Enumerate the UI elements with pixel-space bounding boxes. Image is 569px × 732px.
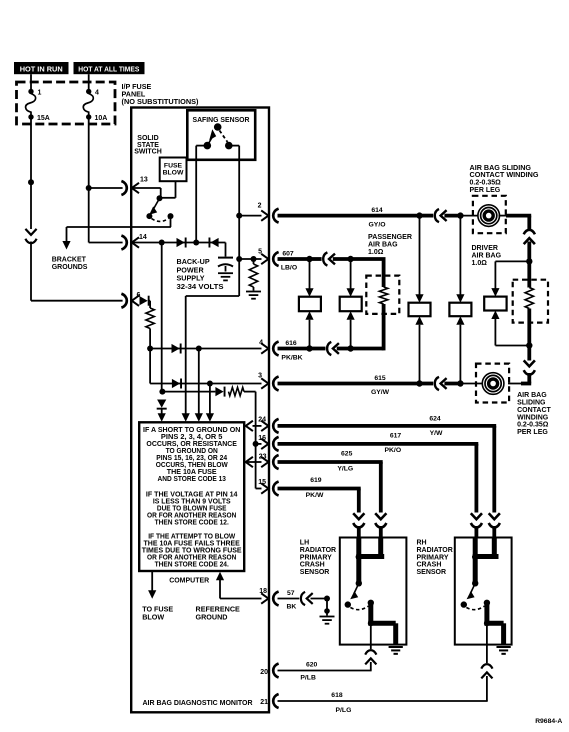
svg-text:THE 10A FUSE: THE 10A FUSE [167, 469, 217, 476]
wire squib P2 bottom [350, 320, 352, 349]
svg-text:32-34 VOLTS: 32-34 VOLTS [177, 282, 224, 291]
wire safing sensor right leg [238, 146, 240, 259]
junction dot 614/squib R2 [457, 212, 463, 218]
wire squib R2 bottom [459, 325, 461, 384]
svg-text:WINDING: WINDING [517, 414, 549, 421]
wire squib R1 top [419, 216, 421, 295]
pin 21 [260, 694, 278, 708]
label REFERENCE GROUND [196, 605, 241, 622]
arrow into squib R2 [456, 294, 464, 303]
label R9684-A [535, 718, 562, 725]
svg-text:14: 14 [139, 234, 147, 241]
junction dot 616/squib P2 [347, 345, 353, 351]
wire 614 GY/O [278, 207, 420, 228]
label COMPUTER [169, 575, 210, 584]
svg-text:16: 16 [258, 435, 266, 442]
svg-text:13: 13 [140, 177, 148, 184]
I/P fuse panel (dashed box) [17, 82, 116, 124]
svg-text:LB/O: LB/O [281, 265, 297, 272]
wire 620 P/LB [278, 662, 372, 682]
svg-text:DUE TO BLOWN FUSE: DUE TO BLOWN FUSE [157, 506, 227, 513]
inline connector on 615 [420, 377, 447, 390]
svg-text:TIMES DUE TO WRONG FUSE: TIMES DUE TO WRONG FUSE [142, 547, 242, 554]
wire to bracket grounds [67, 227, 171, 241]
resistor monitor bias [249, 259, 257, 291]
air bag sliding contact winding (top) box [473, 196, 506, 233]
svg-text:4: 4 [95, 90, 99, 97]
label TO FUSE BLOW [142, 605, 173, 622]
wire 607 to passenger resistor [333, 257, 351, 261]
svg-text:625: 625 [341, 450, 353, 457]
svg-text:21: 21 [260, 699, 268, 706]
inline connector driver return [524, 360, 535, 374]
svg-text:BLOW: BLOW [142, 613, 164, 622]
arrow into computer 4 [206, 413, 214, 422]
svg-text:607: 607 [282, 251, 294, 258]
svg-text:CRASH: CRASH [300, 562, 325, 569]
svg-text:GROUNDS: GROUNDS [52, 264, 88, 271]
wire 625 into LH sensor [379, 526, 383, 539]
svg-text:BK: BK [287, 604, 297, 611]
svg-text:(NO SUBSTITUTIONS): (NO SUBSTITUTIONS) [122, 97, 200, 106]
label DRIVER AIR BAG 1.0 ohm [472, 245, 502, 267]
wire 15A feed to pin 6 [31, 242, 123, 301]
wire pin2 row [239, 215, 261, 217]
arrow pin23 into computer [246, 457, 253, 467]
svg-text:10A: 10A [95, 115, 108, 122]
wire 624 Y/W [278, 416, 497, 513]
driver air bag squib [484, 297, 506, 311]
resistor driver air bag [525, 288, 533, 309]
wire feeder row [162, 391, 216, 393]
svg-text:FUSE: FUSE [164, 162, 183, 169]
junction dot driver bottom [526, 342, 532, 348]
squib R1 [409, 303, 431, 317]
svg-text:1.0Ω: 1.0Ω [368, 249, 384, 256]
junction dot feeder/monitor rail [159, 389, 165, 395]
arrow into driver squib [491, 288, 499, 297]
wire 616 mid [310, 347, 326, 351]
arrow pin24 into computer [246, 421, 253, 431]
svg-text:COMPUTER: COMPUTER [169, 575, 210, 584]
diode CR4 [172, 344, 182, 354]
svg-text:PER LEG: PER LEG [517, 429, 548, 436]
wire squib R2 top [459, 216, 461, 295]
arrow into computer 3 [195, 413, 203, 422]
wire RH sensor to 618 [486, 623, 488, 663]
wire 615 GY/W [278, 375, 420, 396]
wire pin16 row [256, 443, 262, 445]
svg-text:GY/W: GY/W [371, 389, 390, 396]
wire driver squib top [495, 261, 529, 288]
svg-text:BRACKET: BRACKET [52, 257, 87, 264]
svg-text:DRIVER: DRIVER [472, 245, 498, 252]
pin 6 [121, 292, 140, 308]
arrow into squib P1 [305, 288, 313, 297]
inline connector on 57 [301, 592, 313, 605]
wire driver return elbow [508, 373, 531, 384]
inline connector driver feed [524, 230, 535, 244]
diode CR7 [157, 400, 167, 410]
inline connector on 614 [420, 209, 447, 222]
junction dot 614/squib R1 [416, 212, 422, 218]
driver air bag resistor box [513, 280, 548, 323]
label LH RADIATOR PRIMARY CRASH SENSOR [300, 540, 336, 577]
resistor pin6 [146, 308, 154, 329]
arrow reference ground into computer [216, 572, 224, 581]
wire driver resistor top [527, 261, 531, 287]
pin 5 [258, 249, 279, 267]
resistor sense [229, 387, 245, 395]
wire monitor rail to computer [161, 408, 163, 414]
svg-text:PRIMARY: PRIMARY [300, 554, 332, 561]
svg-text:PK/BK: PK/BK [281, 355, 302, 362]
svg-text:THEN STORE CODE 24.: THEN STORE CODE 24. [155, 561, 229, 568]
svg-text:PRIMARY: PRIMARY [417, 554, 449, 561]
pin 2 [258, 202, 279, 222]
wire resistor down [149, 329, 151, 349]
inline connector 617 [471, 513, 482, 527]
passenger squib P1 [299, 297, 321, 312]
air bag diagnostic monitor box [131, 108, 269, 713]
junction dot 10A feed / pin 13 [86, 185, 92, 191]
svg-text:IF THE ATTEMPT TO BLOW: IF THE ATTEMPT TO BLOW [148, 533, 235, 540]
wire driver resistor bottom [527, 309, 531, 346]
label BACK-UP POWER SUPPLY 32-34 VOLTS [177, 257, 224, 291]
wire 624 into RH sensor [492, 526, 496, 539]
svg-text:2: 2 [258, 202, 262, 209]
svg-text:AIR BAG DIAGNOSTIC MONITOR: AIR BAG DIAGNOSTIC MONITOR [143, 698, 254, 707]
svg-text:15A: 15A [37, 115, 50, 122]
wire 10A feed to pin 14 [89, 242, 123, 244]
junction dot safing leg / pin5 [236, 256, 242, 262]
svg-text:PASSENGER: PASSENGER [368, 234, 412, 241]
LH sensor bus [356, 538, 385, 587]
svg-text:1: 1 [38, 90, 42, 97]
junction dot pin14/safing left leg [193, 240, 199, 246]
wire to backup capacitor [225, 243, 227, 257]
svg-text:OR FOR ANOTHER REASON: OR FOR ANOTHER REASON [147, 554, 236, 561]
svg-text:IF THE VOLTAGE AT PIN 14: IF THE VOLTAGE AT PIN 14 [146, 492, 238, 499]
inline connector C- on 15A feed [25, 229, 36, 243]
RH sensor bus [472, 538, 499, 587]
svg-text:CONTACT: CONTACT [517, 407, 551, 414]
label HOT AT ALL TIMES [74, 62, 145, 74]
svg-text:PK/O: PK/O [384, 447, 401, 454]
squib R2 [449, 303, 471, 317]
svg-text:THEN STORE CODE 12.: THEN STORE CODE 12. [155, 519, 229, 526]
arrow into computer 1 [158, 413, 166, 422]
svg-text:RADIATOR: RADIATOR [300, 547, 336, 554]
pin 14 [121, 234, 146, 250]
wire driver to bottom contact [527, 346, 531, 361]
wire fuse1 down [30, 117, 32, 229]
svg-text:P/LG: P/LG [336, 707, 352, 714]
wire sliding contact to driver feed [499, 216, 532, 229]
wire driver squib bottom [495, 319, 529, 346]
svg-text:618: 618 [331, 692, 343, 699]
wire 607 mid [310, 257, 322, 261]
svg-text:IS LESS THAN 9 VOLTS: IS LESS THAN 9 VOLTS [153, 499, 231, 506]
wire 616 PK/BK [278, 340, 310, 361]
svg-text:RADIATOR: RADIATOR [417, 547, 453, 554]
wire squib P1 top [309, 259, 311, 289]
junction dot pin14/monitor rail [159, 240, 165, 246]
svg-text:18: 18 [259, 588, 267, 595]
wire 607 elbow [351, 259, 386, 287]
label AIR BAG DIAGNOSTIC MONITOR [143, 698, 254, 707]
svg-text:AIR BAG: AIR BAG [472, 253, 502, 260]
svg-text:RH: RH [417, 540, 427, 547]
wire pin4 row [150, 348, 261, 350]
label FUSE BLOW [163, 162, 184, 176]
diode CR3 [140, 296, 150, 306]
wire 625 Y/LG [278, 450, 383, 512]
svg-text:GROUND: GROUND [196, 613, 228, 622]
LH sensor output [368, 603, 396, 645]
svg-text:PK/W: PK/W [306, 492, 324, 499]
pin 3 [258, 372, 279, 390]
diode CR5 [172, 379, 182, 389]
svg-text:OR FOR ANOTHER REASON: OR FOR ANOTHER REASON [147, 513, 236, 520]
wire safing sensor left leg [195, 146, 197, 243]
svg-text:616: 616 [285, 340, 297, 347]
computer logic box [139, 422, 244, 571]
resistor passenger air bag [379, 287, 387, 304]
wire hot-at-all-times to fuse 4 [88, 74, 90, 90]
arrow into squib R2 bottom [456, 316, 464, 325]
arrow into squib P1 bottom [305, 311, 313, 320]
inline connector 618 [481, 664, 492, 678]
wire 618 P/LG [278, 676, 488, 714]
fuse 4 10A [83, 89, 107, 122]
wire sense rail 24-16 [255, 426, 257, 444]
svg-text:23: 23 [259, 454, 267, 461]
wire pin24 row [253, 425, 262, 427]
svg-text:PINS 15, 16, 23, OR 24: PINS 15, 16, 23, OR 24 [156, 455, 227, 462]
ground 57 [320, 617, 335, 624]
junction dot pin4 rail [196, 346, 202, 352]
splice dot on 15A feed [28, 179, 34, 185]
pin 16 [258, 435, 278, 451]
svg-text:4: 4 [259, 339, 263, 346]
wire 57 to ground [324, 599, 330, 616]
svg-text:Y/W: Y/W [430, 430, 443, 437]
svg-text:SAFING SENSOR: SAFING SENSOR [193, 115, 251, 124]
wire 607 LB/O [278, 251, 310, 272]
wire squib R1 bottom [419, 325, 421, 384]
svg-text:TO GROUND ON: TO GROUND ON [166, 448, 218, 455]
junction dot 615/squib R1 [416, 380, 422, 386]
svg-text:HOT AT ALL TIMES: HOT AT ALL TIMES [78, 65, 139, 74]
svg-text:24: 24 [258, 416, 266, 423]
ground capacitor [218, 273, 233, 280]
wire 617 into RH sensor [474, 526, 478, 539]
wire pin6 to resistor [149, 301, 150, 308]
junction dot pin3 rail [207, 381, 213, 387]
wire pin3 rail down [209, 384, 211, 414]
solid state switch contacts [146, 195, 173, 227]
junction dot 615/squib R2 [457, 380, 463, 386]
label RH RADIATOR PRIMARY CRASH SENSOR [417, 540, 453, 577]
ground LH sensor [389, 647, 403, 654]
wire squib P2 top [350, 259, 352, 289]
diode CR2 [209, 238, 219, 248]
arrow into squib R1 [415, 294, 423, 303]
wire feeder to sense rail [244, 392, 256, 426]
label I/P FUSE PANEL (NO SUBSTITUTIONS) [122, 82, 200, 106]
arrow into squib P2 bottom [347, 311, 355, 320]
RH sensor switch [461, 583, 491, 609]
wire pin23 row [246, 461, 262, 463]
svg-text:P/LB: P/LB [300, 675, 316, 682]
inline connector 619 [353, 513, 364, 527]
capacitor backup supply [218, 258, 233, 272]
air bag sliding contact winding (top) [478, 205, 500, 227]
junction dot 607/squib P2 [347, 256, 353, 262]
wire 619 PK/W [278, 477, 361, 513]
arrow into squib P2 [347, 288, 355, 297]
junction dot 607/squib P1 [306, 256, 312, 262]
svg-text:1.0Ω: 1.0Ω [472, 260, 488, 267]
svg-text:IF A SHORT TO GROUND ON: IF A SHORT TO GROUND ON [143, 427, 240, 434]
ground RH sensor [496, 647, 510, 654]
wire squib P1 bottom [309, 320, 311, 349]
svg-text:SWITCH: SWITCH [134, 149, 162, 156]
svg-text:GY/O: GY/O [369, 222, 386, 229]
svg-text:OCCURS, THEN BLOW: OCCURS, THEN BLOW [156, 462, 228, 469]
fuse 1 15A [26, 89, 50, 122]
air bag sliding contact winding (bottom) [482, 373, 504, 395]
wire 57 end [311, 598, 328, 600]
inline connector 620 [365, 650, 376, 664]
inline connector 624 [489, 513, 500, 527]
svg-text:624: 624 [429, 416, 441, 423]
svg-text:615: 615 [374, 375, 386, 382]
svg-text:PINS 2, 3, 4, OR 5: PINS 2, 3, 4, OR 5 [161, 434, 223, 441]
wire 10A feed to pin 13 [89, 187, 123, 189]
diode CR6 [215, 387, 225, 397]
safing sensor switch [196, 123, 239, 149]
wire reference ground [220, 580, 262, 599]
svg-text:620: 620 [306, 662, 318, 669]
junction dot sense/pin16 [253, 441, 259, 447]
pin 15 [258, 479, 278, 496]
LH sensor switch [345, 583, 374, 609]
wire monitor rail [161, 243, 163, 392]
svg-text:617: 617 [390, 433, 402, 440]
passenger resistor box [366, 276, 399, 314]
arrow into driver squib bottom [491, 311, 499, 320]
wire passenger resistor bottom [352, 304, 384, 350]
junction dot pin5/resistor [251, 256, 257, 262]
svg-text:20: 20 [260, 669, 268, 676]
svg-text:BLOW: BLOW [163, 170, 184, 177]
junction dot 57/ground [324, 596, 330, 602]
wire pin3 row [150, 383, 261, 385]
svg-text:5: 5 [258, 249, 262, 256]
label PASSENGER AIR BAG 1.0 ohm [368, 234, 412, 256]
label HOT IN RUN [14, 62, 69, 74]
label BRACKET GROUNDS [52, 257, 88, 272]
ground bias resistor [246, 292, 261, 299]
arrow into computer 2 [182, 413, 190, 422]
label AIR BAG SLIDING CONTACT WINDING (top) [470, 165, 540, 194]
wire fuse blow to switch [160, 181, 176, 198]
svg-text:PER LEG: PER LEG [470, 187, 501, 194]
label SAFING SENSOR [193, 115, 251, 124]
svg-text:SENSOR: SENSOR [417, 569, 447, 576]
wire 619 into LH sensor [357, 526, 361, 539]
inline connector 625 [375, 513, 386, 527]
RH radiator primary crash sensor box [455, 538, 512, 645]
wire 616 end [337, 347, 351, 351]
wire 617 PK/O [278, 433, 479, 513]
wire into bottom sliding contact [460, 383, 483, 385]
arrow to fuse blow [148, 590, 156, 599]
label AIR BAG SLIDING CONTACT WINDING (bottom) [517, 392, 551, 436]
wire pin5 row [239, 258, 261, 260]
svg-text:15: 15 [258, 479, 266, 486]
wire pin4 rail down [198, 349, 200, 414]
svg-text:AIR BAG: AIR BAG [517, 392, 547, 399]
pin 20 [260, 664, 278, 678]
safing sensor box [187, 110, 255, 160]
arrow into squib R1 bottom [415, 316, 423, 325]
pin 23 [259, 454, 279, 469]
wire pin15 row [256, 488, 262, 490]
svg-text:LH: LH [300, 540, 309, 547]
LH radiator primary crash sensor box [340, 538, 407, 645]
pin 4 [259, 339, 279, 355]
svg-text:0.2-0.35Ω: 0.2-0.35Ω [470, 180, 502, 187]
wire sense rail 16-15 [255, 444, 257, 489]
svg-text:OCCURS, OR RESISTANCE: OCCURS, OR RESISTANCE [146, 441, 237, 448]
junction dot pin6/pin4 [147, 346, 153, 352]
wire to fuse blow [151, 571, 153, 591]
pin 24 [258, 416, 278, 433]
wire 615 end [444, 382, 460, 386]
bracket grounds arrow [62, 241, 70, 250]
diode CR1 [177, 238, 187, 248]
wire pin14 row [132, 242, 226, 244]
svg-text:CONTACT WINDING: CONTACT WINDING [470, 172, 540, 179]
svg-text:R9684-A: R9684-A [535, 718, 562, 725]
svg-text:AIR BAG: AIR BAG [368, 242, 398, 249]
svg-text:614: 614 [371, 207, 383, 214]
wire 57 BK [278, 590, 300, 611]
wire 614 to sliding contact [444, 214, 460, 218]
svg-text:0.2-0.35Ω: 0.2-0.35Ω [517, 422, 549, 429]
svg-text:THE 10A FUSE FAILS THREE: THE 10A FUSE FAILS THREE [144, 540, 241, 547]
pin 18 [259, 588, 278, 606]
svg-text:619: 619 [310, 477, 322, 484]
wire backup rail [186, 259, 240, 414]
svg-text:AND STORE CODE 13: AND STORE CODE 13 [158, 476, 227, 483]
svg-text:HOT IN RUN: HOT IN RUN [20, 65, 63, 74]
pin 13 [121, 177, 147, 196]
svg-text:3: 3 [258, 372, 262, 379]
wire pin6 rail down [149, 349, 151, 384]
junction dot 616/squib P1 [306, 345, 312, 351]
wire hot-in-run to fuse 1 [30, 74, 32, 90]
junction dot driver top [526, 258, 532, 264]
junction dot safing right leg / pin2 [236, 213, 242, 219]
svg-text:SENSOR: SENSOR [300, 569, 330, 576]
wire fuse4 down [88, 117, 90, 243]
passenger squib P2 [340, 297, 362, 312]
svg-text:57: 57 [287, 590, 295, 597]
